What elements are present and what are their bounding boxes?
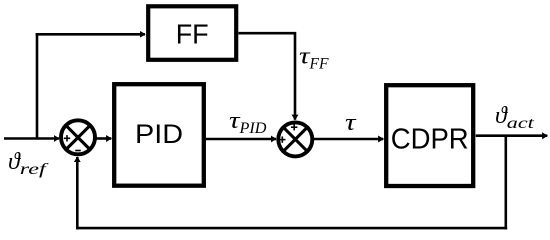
svg-text:τFF: τFF — [299, 44, 329, 73]
block PID — [114, 84, 204, 186]
wire: FF output right — [239, 33, 296, 120]
wire: PID to summing junction 2 — [206, 138, 276, 141]
wire: S2 to CDPR — [314, 138, 384, 141]
wire: feedback down from output — [504, 136, 507, 230]
wire: feedback bottom horizontal — [76, 227, 507, 230]
svg-text:τPID: τPID — [229, 108, 267, 137]
wire: branch vertical up from input — [36, 33, 39, 138]
wire: feedback up into S1 bottom — [76, 157, 79, 229]
wire: CDPR output to the right — [476, 134, 548, 137]
block FF — [148, 6, 236, 60]
wire: input from left to summing junction 1 — [4, 137, 59, 140]
svg-text:ϑref: ϑref — [8, 149, 50, 178]
summing junction S1 — [61, 120, 95, 154]
sign minus on S1 bottom — [75, 150, 81, 152]
svg-text:ϑact: ϑact — [495, 103, 535, 132]
sign plus on S2 left — [279, 136, 285, 142]
block CDPR — [386, 85, 473, 186]
svg-text:PID: PID — [135, 119, 183, 149]
sign plus on S1 left — [64, 135, 70, 141]
svg-text:τ: τ — [345, 110, 357, 136]
sign plus on S2 top — [291, 124, 297, 130]
summing junction S2 — [278, 122, 312, 156]
svg-text:CDPR: CDPR — [391, 123, 469, 155]
svg-text:FF: FF — [176, 19, 209, 50]
wire: S1 to PID — [97, 137, 112, 140]
wire: top horizontal into FF — [36, 33, 145, 36]
